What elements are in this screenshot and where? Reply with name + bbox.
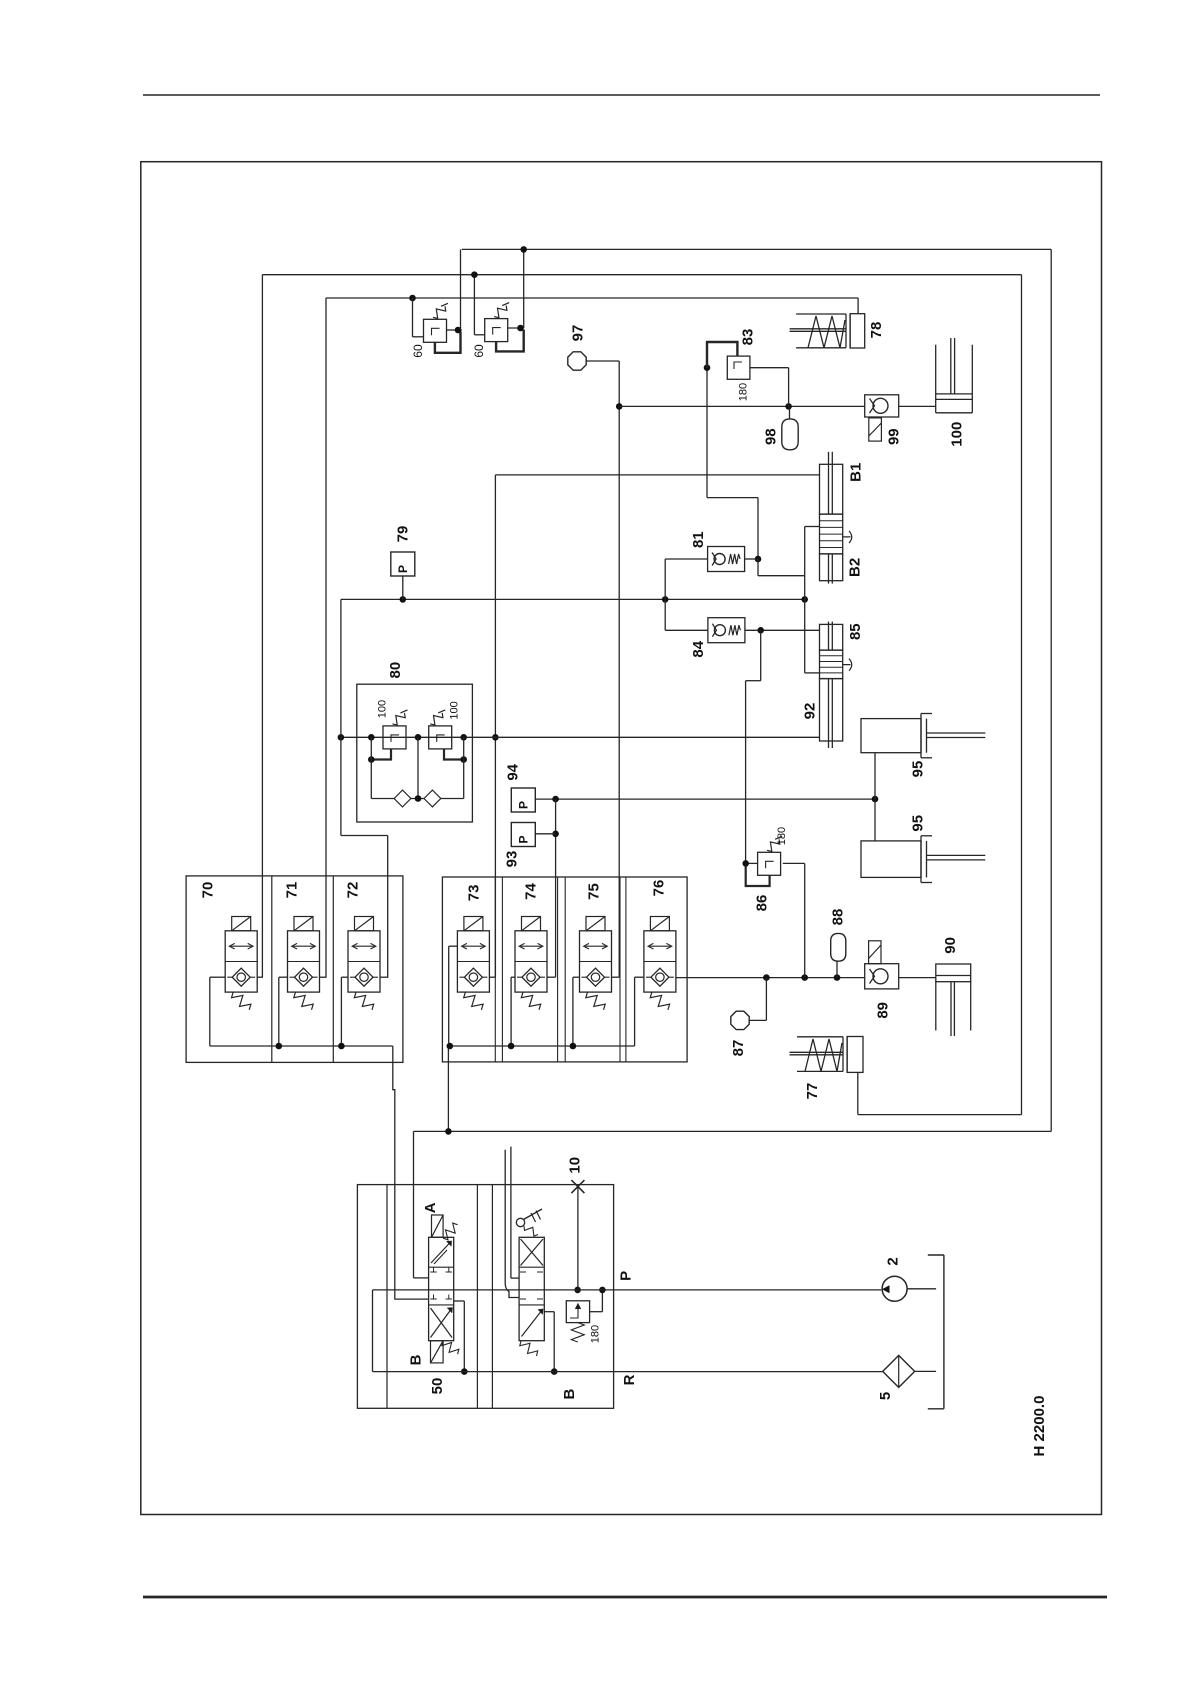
release hook bottom (843, 659, 852, 671)
clutch drum 85 (820, 624, 843, 650)
wire: 60a output riser (460, 249, 462, 330)
line R (373, 1371, 883, 1373)
hand valve R-port elbow (544, 1311, 554, 1313)
valve 70 left stub (210, 976, 225, 978)
svg-text:P: P (618, 1271, 635, 1281)
svg-text:94: 94 (505, 763, 522, 780)
wire: net275 right vertical drop (1021, 275, 1023, 1115)
valve 72 output stub (380, 976, 388, 978)
wire: pump to tank (907, 1288, 936, 1290)
valve bank 73-76 enclosure (442, 877, 687, 1062)
solenoid valve 71 (294, 917, 313, 931)
junction rail / 72-output riser (338, 734, 345, 741)
wire: gauge branch vertical (555, 799, 557, 976)
svg-text:B2: B2 (846, 558, 863, 577)
reducing valve 100b (429, 726, 452, 749)
svg-text:79: 79 (394, 526, 411, 543)
junction accumulator 98 branch (785, 403, 792, 410)
spool valve 50 body (429, 1237, 454, 1340)
wire: relief-valve output bus (net 249) top horizontal (462, 248, 1051, 250)
wire: net249 riser into valve bank 73-76 (447, 1046, 449, 1131)
svg-text:5: 5 (877, 1392, 894, 1400)
svg-text:180: 180 (738, 383, 750, 401)
wire: 60b output riser (523, 249, 525, 328)
gauge port 87 octagon (731, 1011, 749, 1029)
junction net97 / line to valve 99 (616, 403, 623, 410)
wire: filter to tank (915, 1370, 936, 1372)
svg-text:180: 180 (590, 1325, 602, 1343)
cylinder 90 (936, 964, 971, 982)
svg-text:74: 74 (522, 883, 539, 900)
svg-text:95: 95 (909, 761, 926, 778)
wire: valve 83 pilot vertical (706, 368, 708, 498)
junction gauge 94 branch (552, 796, 559, 803)
valve 50 spring A (443, 1223, 458, 1240)
gauge port 97 octagon (568, 352, 586, 370)
valve 86 pilot elbow (746, 863, 770, 886)
line P (373, 1289, 882, 1291)
clutch drum B1 (820, 464, 843, 514)
accumulator 98 (789, 406, 791, 419)
reducing valve 100a (383, 726, 406, 749)
wire: check 84 outlet to clutch 85 (745, 629, 819, 631)
solenoid valve 75 (586, 917, 605, 931)
wire: horizontal line to pilot valve 99 (619, 405, 865, 407)
accumulator 88 (831, 933, 846, 961)
wire: net249 drop into valve 50 port (413, 1131, 415, 1278)
svg-text:77: 77 (804, 1083, 821, 1100)
wire: gauge 93/94 line to cylinders 95 (535, 798, 876, 800)
solenoid valve 72 (355, 917, 374, 931)
svg-text:50: 50 (429, 1378, 446, 1395)
svg-text:P: P (396, 565, 410, 573)
wire: net249 right-side vertical drop (1050, 249, 1052, 1131)
junction valve83 pilot (704, 364, 711, 371)
svg-text:98: 98 (762, 428, 779, 445)
page header rule (143, 94, 1100, 96)
svg-text:70: 70 (199, 882, 216, 899)
junction net298 / relief 60a inlet (409, 295, 416, 302)
block 80 right bypass leg (463, 737, 465, 798)
hand valve 9 body (519, 1237, 544, 1340)
svg-text:B: B (561, 1389, 578, 1400)
valve 180 pilot branch (601, 1290, 603, 1312)
svg-text:2: 2 (885, 1257, 902, 1265)
svg-text:86: 86 (753, 895, 770, 912)
wire: gauge 87 branch (750, 1019, 767, 1021)
junction gauge 93 stub (552, 831, 559, 838)
wire: valve 86 outlet drop (804, 863, 806, 977)
svg-text:78: 78 (868, 322, 885, 339)
svg-text:99: 99 (885, 428, 902, 445)
bank 70-72 bottom bus (210, 1045, 393, 1047)
junction check valve 81 outlet (755, 556, 762, 563)
solenoid valve 76 (650, 917, 669, 931)
svg-text:92: 92 (801, 703, 818, 720)
cylinder 95 lower (861, 841, 921, 878)
wire: clutch bracket vertical (804, 527, 806, 673)
wire: brake line net298 horizontal (326, 297, 858, 299)
svg-text:87: 87 (730, 1040, 747, 1057)
svg-text:84: 84 (690, 640, 707, 657)
solenoid valve 73 (464, 917, 483, 931)
wire: elbow to check valve 81 outlet (707, 497, 758, 499)
pressure gauge 93 (511, 823, 535, 847)
svg-text:60: 60 (411, 344, 425, 358)
wire: pilot line from gauge port 97 (587, 360, 620, 362)
svg-text:75: 75 (585, 883, 602, 900)
spring actuator 77 (797, 1036, 843, 1038)
valve 75 output stub (612, 976, 620, 978)
valve 50 B-port elbow (454, 1300, 465, 1302)
valve 71 output stub (320, 976, 327, 978)
pressure gauge 94 (511, 788, 535, 812)
valve 50 solenoid B (431, 1341, 444, 1363)
valve 86 inlet stub (746, 862, 758, 864)
block 80 bypass bus (371, 798, 394, 800)
wire: net275 bottom horizontal to actuator 77 (858, 1114, 1022, 1116)
block 80 enclosure (357, 684, 473, 822)
valve 76 left stub (635, 976, 644, 978)
wire: actuator 77 port riser (857, 1073, 859, 1115)
solenoid valve 70 (232, 917, 251, 931)
wire: net72 elbow into bank (341, 835, 388, 837)
svg-text:A: A (422, 1202, 439, 1213)
wire: 81 outlet elbow to clutch bracket (757, 559, 759, 576)
junction gauge 79 branch (400, 596, 407, 603)
svg-text:76: 76 (650, 880, 667, 897)
svg-text:90: 90 (942, 937, 959, 954)
relief valve 86 (758, 852, 781, 875)
block 50 enclosure (357, 1185, 613, 1409)
svg-text:100: 100 (377, 700, 389, 718)
svg-text:P: P (517, 801, 531, 809)
junction rail end at clutch bracket (801, 596, 808, 603)
valve 71 left stub (279, 976, 288, 978)
block 80 left bypass leg (370, 737, 372, 798)
relief valve 60a (424, 319, 447, 342)
clutch drum 92 (820, 679, 843, 741)
valve 74 left stub (511, 976, 515, 978)
wire: net249 bottom horizontal to manifold (414, 1130, 1052, 1132)
pump 2 (882, 1276, 907, 1301)
wire: check 81 inlet branch (664, 559, 666, 630)
wire: 84 outlet drop to valve 86 (760, 630, 762, 680)
svg-text:81: 81 (690, 531, 707, 548)
svg-text:180: 180 (776, 827, 788, 845)
valve 73 left stub (449, 945, 458, 947)
svg-text:B: B (407, 1354, 424, 1365)
junction rail / check 81 inlet branch (662, 596, 669, 603)
svg-text:97: 97 (569, 325, 586, 342)
pilot valve 89 body (865, 964, 899, 989)
clutch plates B1/B2 (820, 514, 843, 554)
relief valve 180 in block 50 (566, 1301, 589, 1323)
wire: accumulator 88 stub (836, 961, 838, 977)
junction net B1 / block 80 rail (492, 734, 499, 741)
svg-text:95: 95 (909, 815, 926, 832)
solenoid valve 74 (522, 917, 541, 931)
valve 50 spring B (442, 1341, 459, 1355)
valve 75 left stub (573, 976, 580, 978)
wire: block 80 rail to clutch 92 (341, 736, 820, 738)
svg-text:100: 100 (449, 701, 461, 719)
wire: net275 left vertical to valve 70 output (261, 275, 263, 978)
bus drop to valve 50 (393, 1046, 429, 1299)
block 80 rail junctions (368, 734, 375, 741)
bypass check diamond a (394, 790, 411, 807)
valve 83 pilot elbow (707, 342, 737, 368)
bypass check diamond b (424, 790, 441, 807)
svg-text:88: 88 (829, 909, 846, 926)
wire: plug 10 drop to P (577, 1187, 579, 1290)
svg-text:93: 93 (504, 851, 521, 868)
pressure gauge 79 (391, 552, 415, 576)
cylinder 100 (935, 345, 937, 413)
wire: gauge 79 stub (402, 576, 404, 599)
valve bank 70-72 enclosure (186, 876, 403, 1063)
valve 74 output stub (547, 976, 556, 978)
svg-text:P: P (517, 835, 531, 843)
spring actuator 78 (796, 313, 846, 315)
svg-text:89: 89 (875, 1002, 892, 1019)
wire: actuator 78 port riser (857, 298, 859, 314)
svg-text:60: 60 (472, 344, 486, 358)
junction valve 86 branch (801, 974, 808, 981)
wire: valve 99 to cylinder 100 (899, 405, 936, 407)
plug 10 cross (571, 1180, 584, 1193)
clutch plates 85/92 (820, 650, 843, 679)
svg-text:73: 73 (465, 885, 482, 902)
wire: rail net72 horizontal (py599) (341, 598, 805, 600)
block 80 center leg (417, 737, 419, 798)
wire: net298 left vertical to valve 71 output (325, 298, 327, 978)
drawing border frame (141, 162, 1102, 1515)
wire: P-R left return (372, 1290, 374, 1372)
page footer rule (143, 1596, 1107, 1599)
check valve 84 (708, 618, 745, 643)
hand valve feed stubs (510, 1147, 512, 1279)
svg-text:85: 85 (847, 623, 864, 640)
wire: line B1 horizontal (net B1) (495, 474, 819, 476)
valve 50 solenoid A (432, 1215, 444, 1237)
svg-text:72: 72 (344, 882, 361, 899)
junction accumulator 88 branch (834, 974, 841, 981)
wire: cylinder 95 tee verticals (874, 753, 876, 841)
junction check 84 outlet (757, 627, 764, 634)
svg-text:10: 10 (566, 1157, 583, 1174)
pilot valve 99 body (865, 395, 899, 417)
valve 76 output stub (675, 976, 677, 978)
valve 100b pilot elbow (444, 749, 464, 760)
valve 70 output stub (257, 976, 262, 978)
valve 99 manual release (869, 418, 882, 441)
junction gauge 87 branch (763, 974, 770, 981)
junction cylinder 95 tee (872, 796, 879, 803)
valve 73 output stub (489, 976, 495, 978)
wire: net72 left vertical (340, 599, 342, 835)
valve 100a pilot elbow (371, 749, 391, 760)
filter 5 (883, 1355, 915, 1387)
valve 180 spring (571, 1323, 584, 1342)
release hook top (843, 531, 852, 543)
wire: check 84 inlet stub (665, 629, 708, 631)
clutch drum B2 (820, 554, 843, 581)
svg-text:H 2200.0: H 2200.0 (1031, 1396, 1048, 1457)
tank bracket (943, 1255, 945, 1409)
svg-text:83: 83 (739, 329, 756, 346)
bank 73-76 bottom bus (449, 1045, 635, 1047)
hand valve spring bottom (520, 1341, 538, 1356)
wire: valve 76 output line (net977) (676, 977, 865, 979)
svg-text:71: 71 (283, 882, 300, 899)
wire: net B1 vertical riser to valve 73 (494, 475, 496, 977)
svg-text:B1: B1 (848, 463, 865, 482)
check valve 81 (708, 547, 745, 572)
relief valve 60b (485, 319, 508, 342)
valve 72 left stub (341, 976, 348, 978)
hand valve lever (516, 1218, 524, 1226)
wire: valve 83 branch riser (788, 368, 790, 407)
wire: valve 89 to cylinder 90 (899, 977, 936, 979)
cylinder 95 upper (861, 719, 921, 753)
svg-text:R: R (621, 1374, 638, 1385)
valve 83 body (727, 356, 750, 379)
svg-text:100: 100 (948, 422, 965, 447)
hand valve spring top (524, 1226, 538, 1236)
junction net249/bank bus (445, 1128, 452, 1135)
svg-text:80: 80 (387, 662, 404, 679)
wire: brake line net275 top horizontal (262, 274, 1021, 276)
valve 89 solenoid (869, 941, 881, 964)
